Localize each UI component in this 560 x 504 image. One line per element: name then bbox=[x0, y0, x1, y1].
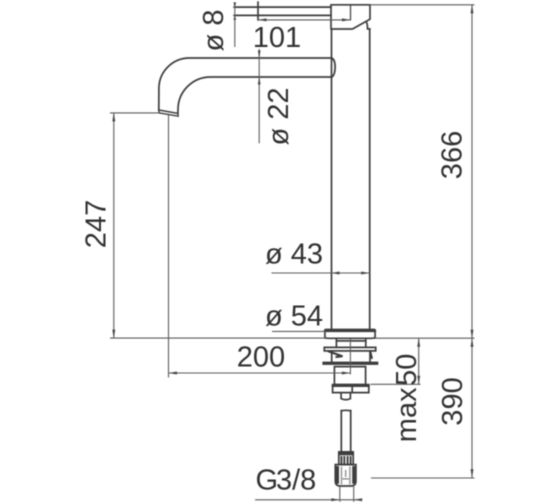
connector nut shading bbox=[337, 466, 353, 485]
svg-text:366: 366 bbox=[437, 131, 469, 179]
horseshoe washer bbox=[324, 347, 375, 351]
flange top band bbox=[325, 330, 375, 332]
handle pivot line bbox=[350, 5, 352, 20]
collar ribs dark bbox=[339, 454, 353, 465]
nut flange bbox=[333, 385, 369, 393]
G38 ext lines bbox=[340, 487, 354, 502]
dim 247 bottom ref bbox=[110, 337, 325, 339]
hose tube bbox=[341, 410, 350, 452]
svg-text:G: G bbox=[256, 464, 279, 496]
body bbox=[332, 29, 370, 330]
nut flange top band bbox=[333, 385, 369, 387]
200 arrows bbox=[169, 372, 178, 375]
247 arrows bbox=[112, 113, 115, 122]
svg-text:max: max bbox=[391, 387, 423, 442]
spout outlet cap bbox=[159, 110, 179, 116]
dimension texts bbox=[81, 10, 470, 497]
dia8 arrows bbox=[233, 3, 236, 8]
spout junction arc bbox=[332, 58, 336, 77]
spout center ext bbox=[168, 114, 170, 378]
hose collar bbox=[339, 452, 353, 465]
svg-text:ø 8: ø 8 bbox=[198, 10, 230, 52]
faucet centerline bbox=[349, 339, 351, 375]
top ext line 366 bbox=[370, 4, 475, 6]
dia54 leader bbox=[272, 330, 326, 332]
washer diagonal left bbox=[329, 351, 343, 357]
flange base bbox=[325, 330, 375, 339]
dim 247 top ref bbox=[110, 112, 159, 114]
svg-text:390: 390 bbox=[437, 377, 469, 425]
dim 101 line bbox=[258, 19, 351, 21]
svg-text:3/8: 3/8 bbox=[276, 464, 316, 496]
dia43 dim line bbox=[272, 272, 370, 274]
lever bar bbox=[234, 7, 331, 15]
dia22 dim line bbox=[258, 49, 260, 143]
spout top edge bbox=[159, 58, 332, 110]
max50 bottom ref bbox=[371, 383, 421, 385]
dia22 arrows bbox=[258, 51, 261, 59]
mounting nut bbox=[334, 367, 365, 385]
dia8 dim line bbox=[234, 2, 236, 47]
washer diagonal right bbox=[370, 351, 372, 358]
svg-text:247: 247 bbox=[81, 200, 113, 248]
G38 arrows bbox=[331, 498, 340, 501]
washer plate dark bbox=[322, 362, 378, 365]
max50 dim line bbox=[418, 338, 420, 384]
svg-text:ø 54: ø 54 bbox=[265, 300, 323, 332]
101 arrows bbox=[258, 18, 267, 21]
dim 390 bottom ref bbox=[371, 477, 475, 479]
svg-text:101: 101 bbox=[253, 22, 301, 54]
dimension graphics bbox=[110, 2, 475, 502]
390 arrows bbox=[471, 338, 474, 347]
svg-text:ø 22: ø 22 bbox=[263, 87, 295, 145]
handle head bbox=[331, 5, 370, 29]
dim line 366-390 bbox=[471, 5, 473, 478]
spout bottom edge bbox=[178, 77, 332, 114]
counter ext right bbox=[375, 337, 474, 339]
clip sides bbox=[332, 351, 370, 362]
svg-text:ø 43: ø 43 bbox=[265, 239, 323, 271]
neck below counter bbox=[336, 338, 365, 347]
hose stub bbox=[341, 393, 350, 400]
lever tip end bbox=[257, 2, 259, 20]
dim 247 line bbox=[113, 113, 115, 338]
svg-text:200: 200 bbox=[237, 342, 285, 374]
dim 200 line bbox=[169, 372, 351, 374]
G3/8 connector nut bbox=[335, 465, 356, 486]
G38 dim line bbox=[255, 499, 360, 501]
dia43 arrows bbox=[331, 272, 340, 275]
svg-text:50: 50 bbox=[391, 354, 423, 386]
max50 arrows bbox=[417, 338, 420, 347]
arrowheads bbox=[112, 3, 473, 502]
366 arrows bbox=[471, 5, 474, 14]
